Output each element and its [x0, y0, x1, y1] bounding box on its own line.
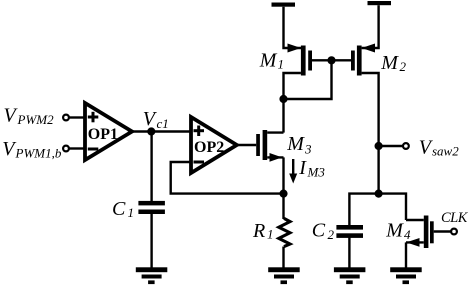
svg-text:1: 1: [128, 205, 135, 220]
node M1 drain: [281, 96, 287, 102]
svg-text:PWM2: PWM2: [17, 112, 55, 127]
ground under M4: [390, 267, 422, 284]
transistor M4: [406, 216, 434, 249]
wire VDD to M1 source: [284, 7, 302, 48]
wire OP2 feedback from source node: [171, 162, 284, 194]
svg-text:R: R: [252, 220, 265, 242]
wire Vc1 down to C1: [150, 132, 152, 203]
svg-text:saw2: saw2: [432, 144, 459, 159]
svg-text:2: 2: [400, 59, 407, 74]
node M3 source / R1 / feedback: [281, 191, 287, 197]
label IM3: [298, 157, 325, 179]
svg-text:M: M: [259, 50, 278, 72]
wire M1 drain down: [284, 73, 301, 99]
label R1: [252, 220, 274, 242]
wire R1 to ground: [282, 247, 284, 269]
label VPWM2: [4, 105, 55, 128]
input terminal VPWM2: [63, 115, 85, 121]
svg-text:M: M: [380, 52, 399, 74]
wire diode connection drain to gate: [284, 60, 332, 99]
label M3: [286, 133, 312, 156]
svg-text:1: 1: [267, 227, 274, 242]
arrow M1 source: [288, 44, 302, 53]
svg-text:M: M: [385, 220, 404, 242]
ground under C2: [334, 267, 366, 284]
terminal Vsaw2: [403, 143, 409, 149]
arrow M2 source: [362, 44, 375, 53]
label CLK: [441, 210, 469, 226]
wire gate node to M2 gate: [332, 59, 352, 61]
svg-text:2: 2: [328, 227, 335, 242]
transistor M2: [351, 46, 362, 76]
svg-text:OP1: OP1: [88, 126, 118, 143]
capacitor C2: [336, 225, 363, 238]
svg-text:C: C: [312, 220, 326, 242]
label Vc1: [143, 108, 169, 131]
wire rail to C2 and M4: [349, 194, 406, 226]
svg-text:CLK: CLK: [441, 210, 469, 226]
svg-text:3: 3: [304, 142, 312, 157]
terminal CLK: [451, 229, 457, 235]
wire M1 gate to common gate node: [312, 59, 332, 61]
node Vc1: [148, 129, 154, 135]
svg-text:M: M: [286, 133, 305, 155]
wire OP1 output to OP2 + input: [132, 130, 191, 132]
svg-text:I: I: [298, 157, 307, 179]
op-amp OP2: [191, 117, 237, 173]
wire M2 drain down: [362, 73, 379, 194]
label M4: [385, 220, 411, 243]
input terminal VPWM1,b: [63, 146, 85, 152]
svg-text:4: 4: [404, 227, 411, 242]
wire M4 source to ground: [405, 242, 407, 268]
node Vsaw2 tap: [376, 143, 382, 149]
svg-text:M3: M3: [307, 165, 326, 180]
capacitor C1: [138, 201, 165, 214]
wire M4 gate to CLK terminal: [434, 230, 451, 232]
ground under C1: [136, 267, 168, 284]
resistor R1: [279, 218, 290, 246]
wire OP2 output to M3 gate: [237, 144, 256, 146]
label C1: [112, 198, 134, 220]
VDD rail over M1: [272, 3, 296, 7]
op-amp OP1: [85, 103, 132, 160]
wire C1 to ground: [150, 214, 152, 269]
wire C2 to ground: [348, 237, 350, 268]
wire M2 source to VDD: [362, 5, 379, 48]
transistor M1: [301, 46, 312, 76]
node C2 / M4 rail: [376, 191, 382, 197]
svg-text:PWM1,b: PWM1,b: [15, 146, 62, 161]
label M2: [380, 52, 406, 74]
label Vsaw2: [419, 137, 459, 159]
wire node to R1: [282, 194, 284, 219]
svg-text:OP2: OP2: [194, 139, 224, 156]
svg-text:c1: c1: [157, 116, 169, 131]
wire M3 source down to node: [282, 157, 284, 193]
transistor M3: [256, 130, 283, 162]
ground under R1: [268, 267, 300, 284]
label M1: [259, 50, 284, 72]
svg-text:C: C: [112, 198, 126, 220]
label VPWM1,b: [2, 138, 62, 161]
wire to Vsaw2 terminal: [379, 145, 403, 147]
VDD rail over M2: [368, 1, 392, 5]
label C2: [312, 220, 335, 243]
current arrow IM3: [289, 159, 297, 184]
node common gate: [329, 57, 335, 63]
svg-text:1: 1: [278, 57, 285, 72]
wire M3 drain up to M1 drain: [282, 99, 284, 133]
